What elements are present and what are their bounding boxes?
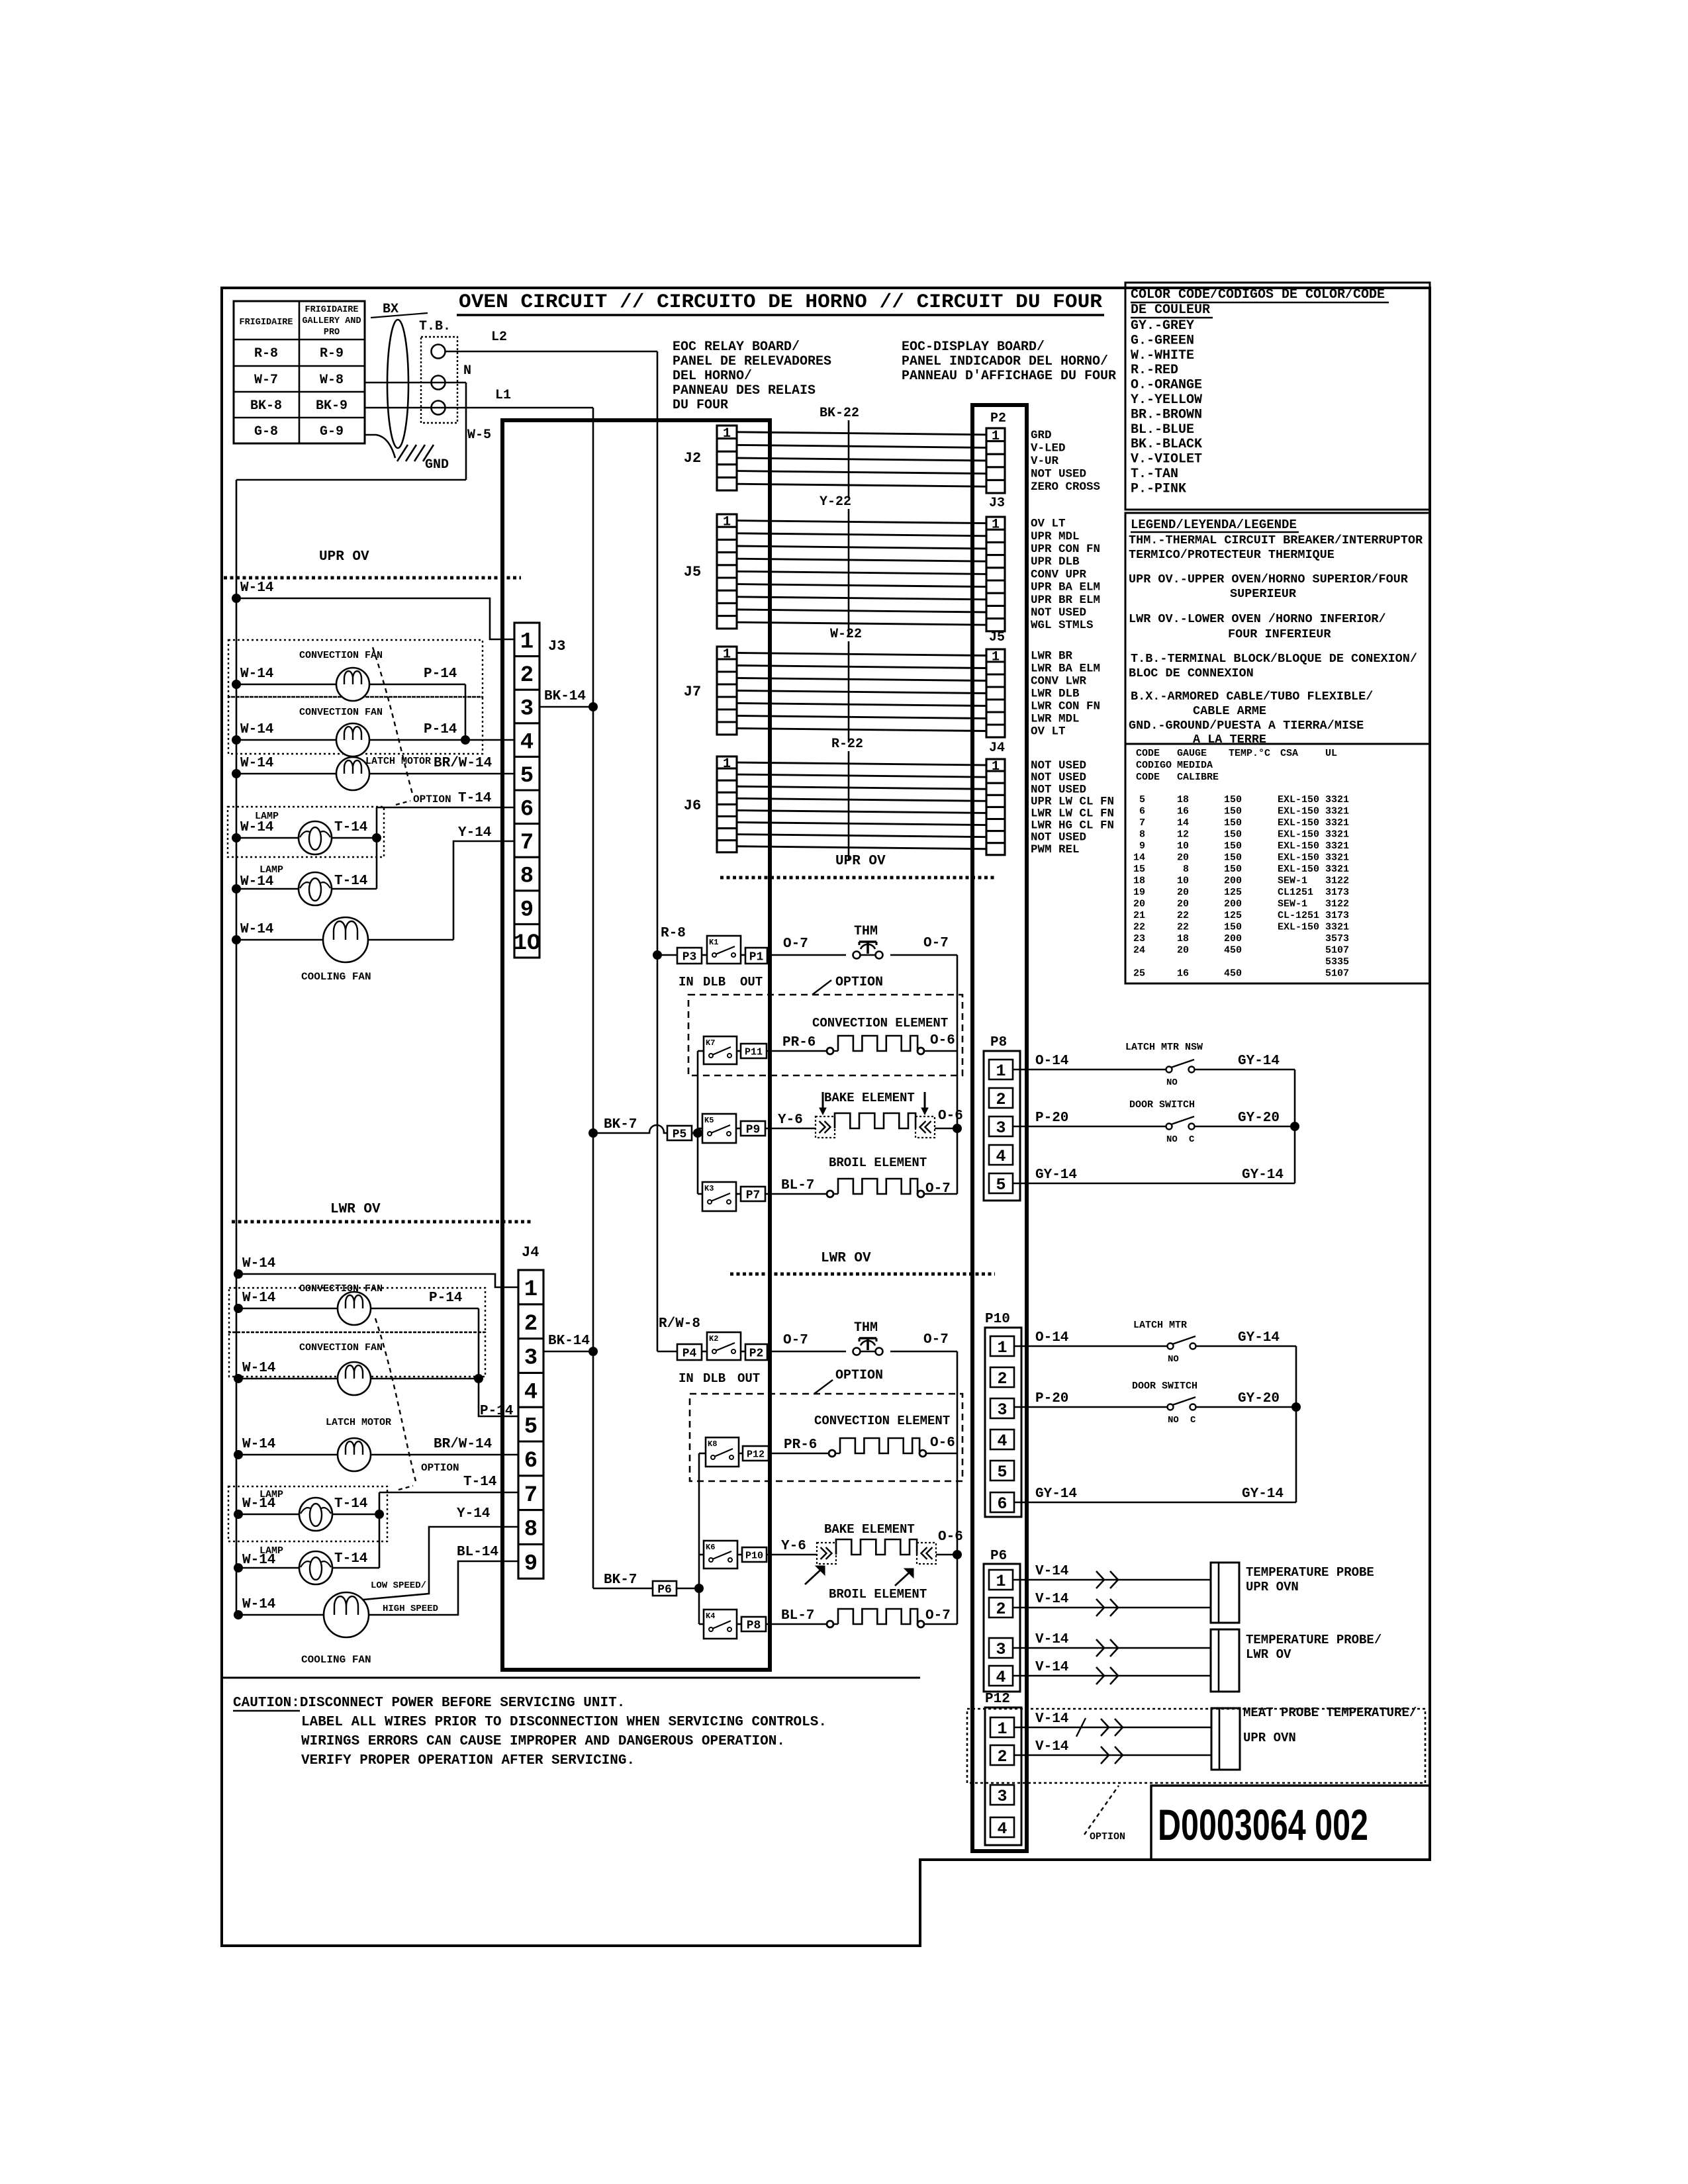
svg-text:Y-14: Y-14 bbox=[457, 1506, 490, 1522]
svg-text:2: 2 bbox=[997, 1369, 1007, 1388]
svg-text:CONV LWR: CONV LWR bbox=[1031, 675, 1087, 688]
svg-text:W-14: W-14 bbox=[240, 922, 273, 937]
svg-text:O-7: O-7 bbox=[923, 1332, 949, 1347]
svg-text:O-7: O-7 bbox=[925, 1608, 951, 1623]
svg-text:5: 5 bbox=[520, 764, 534, 789]
svg-text:BK-14: BK-14 bbox=[544, 689, 586, 704]
svg-text:LATCH MTR: LATCH MTR bbox=[1133, 1320, 1187, 1331]
svg-text:3321: 3321 bbox=[1325, 841, 1349, 852]
svg-text:W-14: W-14 bbox=[242, 1496, 275, 1512]
svg-text:CL-1251: CL-1251 bbox=[1278, 910, 1319, 921]
svg-text:J5: J5 bbox=[989, 630, 1005, 645]
svg-text:LATCH MOTOR: LATCH MOTOR bbox=[326, 1417, 391, 1428]
svg-text:20: 20 bbox=[1133, 899, 1145, 910]
svg-text:P1: P1 bbox=[749, 950, 764, 964]
svg-text:NO: NO bbox=[1168, 1415, 1179, 1426]
svg-text:L1: L1 bbox=[495, 388, 511, 403]
svg-text:PRO: PRO bbox=[324, 328, 340, 338]
svg-text:FRIGIDAIRE: FRIGIDAIRE bbox=[305, 305, 358, 315]
svg-text:BL.-BLUE: BL.-BLUE bbox=[1131, 422, 1194, 437]
svg-text:4: 4 bbox=[996, 1147, 1006, 1166]
svg-text:P6: P6 bbox=[990, 1549, 1007, 1564]
svg-text:1: 1 bbox=[996, 1062, 1006, 1081]
svg-text:BX: BX bbox=[383, 302, 399, 317]
svg-text:P7: P7 bbox=[746, 1189, 761, 1202]
svg-text:P2: P2 bbox=[749, 1347, 764, 1360]
svg-text:SEW-1: SEW-1 bbox=[1278, 876, 1307, 887]
svg-text:NO: NO bbox=[1168, 1354, 1179, 1365]
svg-text:COOLING FAN: COOLING FAN bbox=[301, 971, 371, 983]
svg-text:22: 22 bbox=[1177, 922, 1189, 933]
svg-text:7: 7 bbox=[524, 1483, 538, 1508]
svg-text:UPR BR ELM: UPR BR ELM bbox=[1031, 594, 1100, 607]
svg-text:PANEL DE RELEVADORES: PANEL DE RELEVADORES bbox=[673, 354, 831, 369]
svg-text:200: 200 bbox=[1224, 933, 1242, 944]
svg-text:P-14: P-14 bbox=[429, 1291, 462, 1306]
svg-text:O-14: O-14 bbox=[1035, 1054, 1068, 1069]
svg-text:5: 5 bbox=[1139, 794, 1145, 805]
svg-text:15: 15 bbox=[1133, 864, 1145, 875]
svg-text:PANNEAU DES RELAIS: PANNEAU DES RELAIS bbox=[673, 383, 816, 398]
svg-text:EOC-DISPLAY BOARD/: EOC-DISPLAY BOARD/ bbox=[902, 340, 1045, 355]
svg-text:5: 5 bbox=[997, 1463, 1007, 1482]
svg-text:UPR OV.-UPPER OVEN/HORNO SUPER: UPR OV.-UPPER OVEN/HORNO SUPERIOR/FOUR bbox=[1129, 572, 1409, 586]
svg-text:3321: 3321 bbox=[1325, 806, 1349, 817]
svg-text:LWR HG CL FN: LWR HG CL FN bbox=[1031, 819, 1114, 833]
svg-text:200: 200 bbox=[1224, 876, 1242, 887]
svg-text:P5: P5 bbox=[673, 1128, 687, 1141]
svg-text:W-14: W-14 bbox=[242, 1256, 275, 1271]
svg-text:W-14: W-14 bbox=[242, 1597, 275, 1612]
svg-text:CL1251: CL1251 bbox=[1278, 887, 1313, 898]
svg-text:EOC RELAY BOARD/: EOC RELAY BOARD/ bbox=[673, 340, 800, 355]
svg-text:150: 150 bbox=[1224, 829, 1242, 841]
svg-text:12: 12 bbox=[1177, 829, 1189, 841]
svg-text:D0003064 002: D0003064 002 bbox=[1158, 1800, 1368, 1849]
svg-text:22: 22 bbox=[1133, 922, 1145, 933]
svg-text:UPR CON FN: UPR CON FN bbox=[1031, 543, 1100, 556]
svg-text:10: 10 bbox=[1177, 841, 1189, 852]
svg-text:GRD: GRD bbox=[1031, 429, 1052, 442]
svg-text:EXL-150: EXL-150 bbox=[1278, 794, 1319, 805]
svg-text:O-14: O-14 bbox=[1035, 1330, 1068, 1345]
svg-text:LWR OV.-LOWER OVEN /HORNO INFE: LWR OV.-LOWER OVEN /HORNO INFERIOR/ bbox=[1129, 612, 1386, 626]
svg-text:4: 4 bbox=[997, 1819, 1007, 1839]
svg-text:1: 1 bbox=[723, 515, 731, 530]
svg-text:150: 150 bbox=[1224, 794, 1242, 805]
svg-text:9: 9 bbox=[524, 1552, 538, 1577]
svg-text:IN: IN bbox=[679, 975, 694, 989]
svg-text:K3: K3 bbox=[704, 1184, 714, 1193]
svg-text:P8: P8 bbox=[990, 1035, 1007, 1050]
svg-text:R-22: R-22 bbox=[831, 737, 863, 752]
svg-text:DOOR SWITCH: DOOR SWITCH bbox=[1132, 1381, 1197, 1392]
svg-text:C: C bbox=[1190, 1415, 1196, 1426]
svg-text:O-6: O-6 bbox=[930, 1435, 955, 1451]
svg-text:PR-6: PR-6 bbox=[784, 1437, 817, 1453]
svg-text:3173: 3173 bbox=[1325, 887, 1349, 898]
svg-text:5: 5 bbox=[524, 1414, 538, 1439]
svg-text:GY-14: GY-14 bbox=[1242, 1167, 1284, 1183]
svg-text:W-8: W-8 bbox=[320, 373, 344, 388]
svg-text:B.X.-ARMORED CABLE/TUBO FLEXIB: B.X.-ARMORED CABLE/TUBO FLEXIBLE/ bbox=[1131, 690, 1373, 704]
svg-text:W-14: W-14 bbox=[242, 1361, 275, 1376]
svg-text:J4: J4 bbox=[522, 1244, 539, 1261]
svg-text:UL: UL bbox=[1325, 748, 1337, 759]
svg-text:BK.-BLACK: BK.-BLACK bbox=[1131, 437, 1202, 452]
svg-text:P11: P11 bbox=[745, 1046, 763, 1058]
svg-text:1: 1 bbox=[997, 1338, 1007, 1357]
svg-text:T-14: T-14 bbox=[334, 1551, 367, 1567]
svg-text:P9: P9 bbox=[746, 1123, 761, 1136]
svg-text:LEGEND/LEYENDA/LEGENDE: LEGEND/LEYENDA/LEGENDE bbox=[1131, 518, 1297, 532]
svg-text:6: 6 bbox=[1139, 806, 1145, 817]
svg-text:1: 1 bbox=[723, 647, 731, 662]
svg-text:14: 14 bbox=[1177, 817, 1189, 829]
svg-text:K1: K1 bbox=[709, 938, 718, 947]
svg-text:P-20: P-20 bbox=[1035, 1111, 1068, 1126]
svg-text:THM: THM bbox=[854, 924, 878, 939]
svg-text:NOT USED: NOT USED bbox=[1031, 831, 1086, 844]
svg-text:J5: J5 bbox=[684, 564, 701, 580]
svg-text:150: 150 bbox=[1224, 817, 1242, 829]
svg-text:150: 150 bbox=[1224, 841, 1242, 852]
svg-text:18: 18 bbox=[1177, 794, 1189, 805]
svg-text:150: 150 bbox=[1224, 852, 1242, 864]
svg-text:5: 5 bbox=[996, 1175, 1006, 1195]
svg-text:PANNEAU D'AFFICHAGE DU FOUR: PANNEAU D'AFFICHAGE DU FOUR bbox=[902, 369, 1116, 384]
svg-text:CAUTION:DISCONNECT POWER BEFOR: CAUTION:DISCONNECT POWER BEFORE SERVICIN… bbox=[233, 1696, 625, 1711]
svg-text:C: C bbox=[1189, 1134, 1195, 1145]
svg-text:OV LT: OV LT bbox=[1031, 518, 1066, 531]
svg-text:COOLING FAN: COOLING FAN bbox=[301, 1654, 371, 1666]
svg-text:V.-VIOLET: V.-VIOLET bbox=[1131, 452, 1202, 467]
svg-text:3: 3 bbox=[996, 1640, 1006, 1659]
svg-text:V-14: V-14 bbox=[1035, 1739, 1068, 1754]
svg-text:5107: 5107 bbox=[1325, 968, 1349, 979]
svg-text:BR/W-14: BR/W-14 bbox=[434, 756, 492, 771]
svg-text:20: 20 bbox=[1177, 852, 1189, 864]
svg-text:GND: GND bbox=[425, 457, 449, 473]
svg-text:UPR MDL: UPR MDL bbox=[1031, 530, 1080, 543]
svg-text:18: 18 bbox=[1177, 933, 1189, 944]
svg-text:T-14: T-14 bbox=[334, 874, 367, 889]
svg-text:LWR OV: LWR OV bbox=[821, 1251, 871, 1266]
svg-text:P12: P12 bbox=[747, 1449, 765, 1460]
svg-text:GY-20: GY-20 bbox=[1238, 1111, 1280, 1126]
svg-text:9: 9 bbox=[520, 897, 534, 923]
svg-text:BK-7: BK-7 bbox=[604, 1572, 637, 1588]
svg-text:200: 200 bbox=[1224, 899, 1242, 910]
svg-text:450: 450 bbox=[1224, 968, 1242, 979]
svg-text:W-14: W-14 bbox=[240, 820, 273, 835]
svg-text:TEMPERATURE PROBE/: TEMPERATURE PROBE/ bbox=[1246, 1633, 1382, 1647]
svg-text:T-14: T-14 bbox=[458, 791, 491, 806]
svg-text:P12: P12 bbox=[985, 1692, 1010, 1707]
svg-text:LATCH MTR NSW: LATCH MTR NSW bbox=[1125, 1042, 1203, 1053]
svg-text:W-14: W-14 bbox=[242, 1553, 275, 1568]
svg-text:NOT USED: NOT USED bbox=[1031, 468, 1086, 481]
svg-text:450: 450 bbox=[1224, 945, 1242, 956]
svg-text:UPR LW CL FN: UPR LW CL FN bbox=[1031, 795, 1114, 808]
svg-text:150: 150 bbox=[1224, 806, 1242, 817]
svg-text:LATCH MOTOR: LATCH MOTOR bbox=[365, 756, 431, 767]
svg-text:GAUGE: GAUGE bbox=[1177, 748, 1207, 759]
svg-text:20: 20 bbox=[1177, 887, 1189, 898]
svg-text:LABEL ALL WIRES PRIOR TO DISCO: LABEL ALL WIRES PRIOR TO DISCONNECTION W… bbox=[301, 1715, 827, 1730]
svg-text:K4: K4 bbox=[706, 1612, 715, 1621]
svg-text:CONVECTION FAN: CONVECTION FAN bbox=[299, 1283, 383, 1295]
svg-text:14: 14 bbox=[1133, 852, 1145, 864]
svg-text:1: 1 bbox=[997, 1719, 1007, 1739]
svg-text:O-7: O-7 bbox=[925, 1181, 951, 1197]
svg-text:L2: L2 bbox=[491, 330, 507, 345]
svg-text:2: 2 bbox=[996, 1600, 1006, 1619]
svg-text:4: 4 bbox=[520, 730, 534, 755]
svg-text:6: 6 bbox=[997, 1494, 1007, 1514]
svg-text:Y-6: Y-6 bbox=[781, 1539, 806, 1554]
svg-text:4: 4 bbox=[524, 1381, 538, 1406]
svg-text:3: 3 bbox=[520, 697, 534, 722]
svg-text:NOT USED: NOT USED bbox=[1031, 783, 1086, 796]
svg-text:BAKE ELEMENT: BAKE ELEMENT bbox=[824, 1522, 915, 1537]
svg-text:GY.-GREY: GY.-GREY bbox=[1131, 318, 1194, 334]
svg-text:CALIBRE: CALIBRE bbox=[1177, 772, 1219, 783]
svg-text:GY-14: GY-14 bbox=[1242, 1486, 1284, 1502]
svg-text:UPR OVN: UPR OVN bbox=[1243, 1731, 1296, 1745]
svg-text:150: 150 bbox=[1224, 922, 1242, 933]
svg-text:LWR DLB: LWR DLB bbox=[1031, 688, 1080, 701]
svg-text:BL-7: BL-7 bbox=[781, 1608, 814, 1623]
svg-text:PANEL INDICADOR DEL HORNO/: PANEL INDICADOR DEL HORNO/ bbox=[902, 354, 1108, 369]
svg-text:CONVECTION ELEMENT: CONVECTION ELEMENT bbox=[814, 1414, 950, 1428]
svg-text:3573: 3573 bbox=[1325, 933, 1349, 944]
svg-text:1: 1 bbox=[992, 759, 1000, 774]
svg-text:N: N bbox=[463, 363, 471, 379]
svg-text:3321: 3321 bbox=[1325, 852, 1349, 864]
svg-text:Y-14: Y-14 bbox=[458, 825, 491, 841]
svg-text:EXL-150: EXL-150 bbox=[1278, 817, 1319, 829]
svg-text:SEW-1: SEW-1 bbox=[1278, 899, 1307, 910]
svg-text:19: 19 bbox=[1133, 887, 1145, 898]
svg-text:P.-PINK: P.-PINK bbox=[1131, 481, 1186, 496]
svg-text:3: 3 bbox=[997, 1400, 1007, 1420]
svg-text:PWM REL: PWM REL bbox=[1031, 843, 1080, 856]
svg-text:3321: 3321 bbox=[1325, 829, 1349, 841]
svg-text:V-UR: V-UR bbox=[1031, 455, 1059, 468]
svg-text:8: 8 bbox=[1139, 829, 1145, 841]
svg-text:6: 6 bbox=[524, 1449, 538, 1474]
svg-text:BROIL ELEMENT: BROIL ELEMENT bbox=[829, 1587, 927, 1602]
svg-text:K2: K2 bbox=[709, 1334, 718, 1343]
svg-text:5335: 5335 bbox=[1325, 956, 1349, 968]
svg-text:NO: NO bbox=[1166, 1077, 1178, 1088]
svg-text:1O: 1O bbox=[514, 931, 541, 956]
svg-text:J3: J3 bbox=[989, 496, 1005, 511]
svg-text:1: 1 bbox=[520, 630, 534, 655]
svg-text:3173: 3173 bbox=[1325, 910, 1349, 921]
svg-text:DLB: DLB bbox=[703, 975, 726, 989]
svg-text:UPR OV: UPR OV bbox=[319, 549, 369, 565]
svg-text:J3: J3 bbox=[548, 638, 565, 655]
svg-text:LWR LW CL FN: LWR LW CL FN bbox=[1031, 807, 1114, 820]
svg-text:DOOR SWITCH: DOOR SWITCH bbox=[1129, 1099, 1195, 1111]
svg-text:3: 3 bbox=[997, 1787, 1007, 1806]
svg-text:HIGH SPEED: HIGH SPEED bbox=[383, 1604, 438, 1614]
svg-text:BK-9: BK-9 bbox=[316, 398, 348, 414]
svg-text:O-7: O-7 bbox=[923, 936, 949, 951]
svg-text:SUPERIEUR: SUPERIEUR bbox=[1230, 587, 1297, 601]
svg-text:V-LED: V-LED bbox=[1031, 441, 1066, 455]
svg-text:BK-7: BK-7 bbox=[604, 1117, 637, 1132]
svg-text:Y.-YELLOW: Y.-YELLOW bbox=[1131, 392, 1202, 408]
svg-text:7: 7 bbox=[1139, 817, 1145, 829]
svg-text:OUT: OUT bbox=[740, 975, 763, 989]
svg-text:DEL HORNO/: DEL HORNO/ bbox=[673, 369, 752, 384]
svg-text:OPTION: OPTION bbox=[835, 975, 883, 990]
svg-text:T-14: T-14 bbox=[334, 820, 367, 835]
svg-text:2: 2 bbox=[524, 1312, 538, 1337]
svg-text:1: 1 bbox=[992, 429, 1000, 444]
svg-text:EXL-150: EXL-150 bbox=[1278, 829, 1319, 841]
svg-text:UPR OV: UPR OV bbox=[835, 854, 886, 869]
svg-text:1: 1 bbox=[992, 650, 1000, 665]
svg-text:TERMICO/PROTECTEUR THERMIQUE: TERMICO/PROTECTEUR THERMIQUE bbox=[1129, 548, 1335, 562]
svg-text:125: 125 bbox=[1224, 910, 1242, 921]
svg-text:10: 10 bbox=[1177, 876, 1189, 887]
svg-text:K6: K6 bbox=[706, 1543, 715, 1552]
svg-text:16: 16 bbox=[1177, 968, 1189, 979]
svg-text:9: 9 bbox=[1139, 841, 1145, 852]
svg-text:BL-14: BL-14 bbox=[457, 1545, 498, 1560]
svg-text:25: 25 bbox=[1133, 968, 1145, 979]
svg-text:W-5: W-5 bbox=[467, 428, 491, 443]
svg-text:2: 2 bbox=[520, 663, 534, 688]
svg-text:GND.-GROUND/PUESTA A TIERRA/MI: GND.-GROUND/PUESTA A TIERRA/MISE bbox=[1129, 719, 1364, 733]
svg-text:OPTION: OPTION bbox=[1090, 1831, 1125, 1843]
svg-text:BK-8: BK-8 bbox=[250, 398, 282, 414]
svg-text:CONVECTION ELEMENT: CONVECTION ELEMENT bbox=[812, 1016, 948, 1030]
svg-text:LWR BA ELM: LWR BA ELM bbox=[1031, 662, 1100, 676]
svg-text:1: 1 bbox=[723, 426, 731, 441]
svg-text:MEAT PROBE TEMPERATURE/: MEAT PROBE TEMPERATURE/ bbox=[1243, 1706, 1417, 1720]
svg-text:NOT USED: NOT USED bbox=[1031, 771, 1086, 784]
svg-text:P-20: P-20 bbox=[1035, 1391, 1068, 1406]
svg-text:G.-GREEN: G.-GREEN bbox=[1131, 333, 1194, 348]
svg-text:BLOC DE CONNEXION: BLOC DE CONNEXION bbox=[1129, 666, 1254, 680]
svg-text:P4: P4 bbox=[682, 1347, 697, 1360]
svg-text:CONVECTION FAN: CONVECTION FAN bbox=[299, 650, 383, 661]
svg-text:WIRINGS ERRORS CAN CAUSE IMPRO: WIRINGS ERRORS CAN CAUSE IMPROPER AND DA… bbox=[301, 1734, 785, 1749]
svg-text:BL-7: BL-7 bbox=[781, 1178, 814, 1193]
svg-text:W-14: W-14 bbox=[240, 756, 273, 771]
svg-text:R.-RED: R.-RED bbox=[1131, 363, 1178, 378]
svg-text:UPR DLB: UPR DLB bbox=[1031, 555, 1080, 569]
svg-text:EXL-150: EXL-150 bbox=[1278, 864, 1319, 875]
svg-text:3: 3 bbox=[524, 1346, 538, 1371]
svg-text:G-9: G-9 bbox=[320, 424, 344, 439]
svg-text:16: 16 bbox=[1177, 806, 1189, 817]
svg-text:LWR CON FN: LWR CON FN bbox=[1031, 700, 1100, 713]
svg-text:GALLERY AND: GALLERY AND bbox=[302, 316, 361, 326]
svg-text:W-14: W-14 bbox=[240, 874, 273, 889]
svg-text:1: 1 bbox=[723, 756, 731, 772]
svg-text:P10: P10 bbox=[985, 1312, 1010, 1327]
svg-text:W-7: W-7 bbox=[254, 373, 278, 388]
svg-text:TEMPERATURE PROBE: TEMPERATURE PROBE bbox=[1246, 1565, 1374, 1580]
svg-text:K5: K5 bbox=[704, 1116, 714, 1125]
svg-text:150: 150 bbox=[1224, 864, 1242, 875]
svg-text:8: 8 bbox=[1183, 864, 1189, 875]
svg-text:OUT: OUT bbox=[737, 1371, 760, 1386]
svg-text:O-6: O-6 bbox=[938, 1529, 963, 1545]
svg-text:CONVECTION FAN: CONVECTION FAN bbox=[299, 707, 383, 718]
svg-text:GY-14: GY-14 bbox=[1035, 1486, 1077, 1502]
svg-text:OVEN CIRCUIT // CIRCUITO DE HO: OVEN CIRCUIT // CIRCUITO DE HORNO // CIR… bbox=[459, 291, 1102, 314]
svg-text:NO: NO bbox=[1166, 1134, 1178, 1145]
svg-text:O-7: O-7 bbox=[783, 936, 808, 952]
svg-text:1: 1 bbox=[996, 1572, 1006, 1591]
svg-text:J7: J7 bbox=[684, 684, 701, 700]
svg-text:ZERO CROSS: ZERO CROSS bbox=[1031, 480, 1100, 494]
svg-text:T.B.: T.B. bbox=[419, 319, 451, 334]
svg-text:OPTION: OPTION bbox=[835, 1368, 883, 1383]
svg-text:2: 2 bbox=[996, 1090, 1006, 1109]
svg-text:P8: P8 bbox=[747, 1619, 761, 1632]
svg-text:FRIGIDAIRE: FRIGIDAIRE bbox=[239, 318, 293, 328]
svg-text:DE COULEUR: DE COULEUR bbox=[1131, 302, 1210, 318]
svg-text:UPR BA ELM: UPR BA ELM bbox=[1031, 581, 1100, 594]
svg-text:PR-6: PR-6 bbox=[782, 1035, 816, 1050]
svg-text:5107: 5107 bbox=[1325, 945, 1349, 956]
svg-text:WGL STMLS: WGL STMLS bbox=[1031, 619, 1094, 632]
svg-text:4: 4 bbox=[997, 1432, 1007, 1451]
svg-text:CONVECTION FAN: CONVECTION FAN bbox=[299, 1342, 383, 1353]
svg-text:4: 4 bbox=[996, 1668, 1006, 1687]
svg-text:O-7: O-7 bbox=[783, 1333, 808, 1348]
svg-text:NOT USED: NOT USED bbox=[1031, 759, 1086, 772]
svg-text:J2: J2 bbox=[684, 450, 701, 467]
svg-text:1: 1 bbox=[524, 1277, 538, 1302]
svg-text:23: 23 bbox=[1133, 933, 1145, 944]
svg-text:DU FOUR: DU FOUR bbox=[673, 398, 728, 413]
svg-text:NOT USED: NOT USED bbox=[1031, 606, 1086, 619]
svg-text:J6: J6 bbox=[684, 797, 701, 814]
svg-text:BK-14: BK-14 bbox=[548, 1334, 590, 1349]
svg-text:DLB: DLB bbox=[703, 1371, 726, 1386]
svg-text:BROIL ELEMENT: BROIL ELEMENT bbox=[829, 1156, 927, 1170]
svg-text:1: 1 bbox=[992, 518, 1000, 533]
svg-text:T.B.-TERMINAL BLOCK/BLOQUE DE: T.B.-TERMINAL BLOCK/BLOQUE DE CONEXION/ bbox=[1131, 652, 1417, 666]
svg-text:CSA: CSA bbox=[1280, 748, 1298, 759]
svg-text:LWR OV: LWR OV bbox=[1246, 1647, 1291, 1662]
svg-text:LOW SPEED/: LOW SPEED/ bbox=[371, 1580, 426, 1591]
svg-text:P10: P10 bbox=[745, 1550, 763, 1561]
svg-text:24: 24 bbox=[1133, 945, 1145, 956]
svg-text:GY-14: GY-14 bbox=[1035, 1167, 1077, 1183]
svg-text:W-14: W-14 bbox=[242, 1291, 275, 1306]
svg-text:GY-14: GY-14 bbox=[1238, 1330, 1280, 1345]
svg-text:R-9: R-9 bbox=[320, 346, 344, 361]
svg-text:P-14: P-14 bbox=[480, 1404, 513, 1419]
svg-text:W-14: W-14 bbox=[242, 1437, 275, 1452]
svg-text:18: 18 bbox=[1133, 876, 1145, 887]
svg-text:W-14: W-14 bbox=[240, 666, 273, 682]
svg-text:GY-20: GY-20 bbox=[1238, 1391, 1280, 1406]
svg-text:IN: IN bbox=[679, 1371, 694, 1386]
svg-text:EXL-150: EXL-150 bbox=[1278, 852, 1319, 864]
svg-text:W-22: W-22 bbox=[830, 627, 862, 642]
